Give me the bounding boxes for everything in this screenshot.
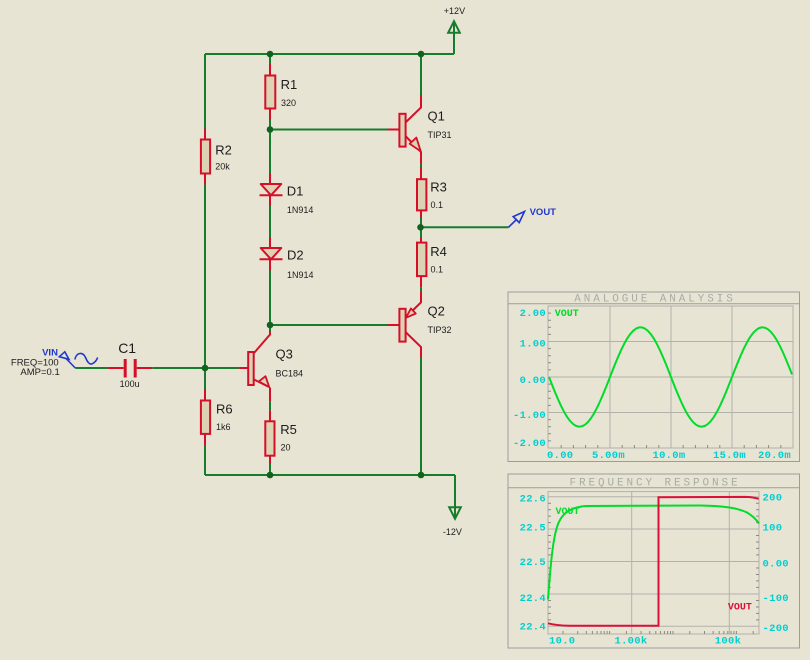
- svg-text:0.00: 0.00: [763, 559, 789, 571]
- svg-text:0.00: 0.00: [520, 375, 546, 387]
- svg-text:2.00: 2.00: [520, 308, 546, 320]
- power -12V: [443, 507, 462, 537]
- svg-text:R2: R2: [215, 143, 232, 158]
- capacitor C1: [118, 340, 139, 389]
- svg-text:R1: R1: [281, 77, 298, 92]
- svg-text:VOUT: VOUT: [555, 309, 579, 320]
- wire C1 to node: [137, 367, 153, 369]
- svg-text:VOUT: VOUT: [728, 603, 752, 614]
- svg-text:22.4: 22.4: [520, 622, 546, 634]
- wire Q3 collector: [254, 331, 270, 353]
- wire top rail: [205, 33, 454, 54]
- axis ticks panel 2: [548, 503, 759, 634]
- svg-text:Q3: Q3: [276, 347, 293, 362]
- svg-text:1N914: 1N914: [287, 205, 314, 215]
- wire R5 to bottom rail: [269, 456, 271, 464]
- resistor R4: [417, 243, 447, 277]
- wire D2 pin stubs: [269, 237, 271, 271]
- wire VOUT: [421, 226, 509, 228]
- node top Q1 junction: [418, 51, 425, 58]
- wire R1 pin stubs: [269, 64, 271, 120]
- transistor Q3: [248, 347, 303, 402]
- svg-text:22.5: 22.5: [520, 557, 546, 569]
- svg-text:TIP31: TIP31: [428, 130, 452, 140]
- svg-text:-12V: -12V: [443, 527, 462, 537]
- svg-text:TIP32: TIP32: [428, 325, 452, 335]
- axis labels panel 1: [513, 308, 791, 462]
- trace phase curve red: [548, 497, 759, 626]
- svg-text:D1: D1: [287, 183, 304, 198]
- svg-text:200: 200: [763, 493, 783, 505]
- svg-text:10.0m: 10.0m: [652, 450, 685, 462]
- svg-text:+12V: +12V: [444, 6, 465, 16]
- svg-text:C1: C1: [118, 340, 136, 356]
- wire Q2 collector to bottom rail: [420, 358, 422, 476]
- svg-text:Q1: Q1: [428, 108, 445, 123]
- wire R2 pin stubs: [204, 129, 206, 185]
- svg-text:22.4: 22.4: [520, 593, 546, 605]
- svg-text:-2.00: -2.00: [513, 438, 546, 450]
- wire Q3 base stub: [239, 367, 249, 369]
- wire bottom rail: [205, 475, 455, 507]
- svg-text:-200: -200: [763, 623, 789, 635]
- graph panel FREQUENCY RESPONSE: [508, 474, 800, 648]
- diode D2: [260, 247, 314, 280]
- resistor R6: [201, 401, 233, 434]
- svg-text:R4: R4: [430, 244, 447, 259]
- wire R6 pin stubs: [204, 389, 206, 445]
- wire Q1 emitter to R3: [420, 164, 422, 168]
- svg-text:1.00: 1.00: [520, 339, 546, 351]
- svg-text:AMP=0.1: AMP=0.1: [20, 367, 59, 378]
- node bottom R5 junction: [267, 472, 274, 479]
- trace VOUT sine curve: [549, 327, 792, 426]
- wire Q3 emitter to R5: [269, 402, 271, 411]
- svg-text:20k: 20k: [215, 162, 230, 172]
- diode D1: [260, 183, 314, 215]
- svg-text:22.6: 22.6: [520, 494, 546, 506]
- svg-text:15.0m: 15.0m: [713, 450, 746, 462]
- node Q1 base junction: [267, 126, 274, 133]
- svg-text:20.0m: 20.0m: [758, 450, 791, 462]
- terminal VOUT arrow: [509, 207, 557, 227]
- wire R4 to Q2 emitter: [420, 276, 422, 288]
- svg-text:-1.00: -1.00: [513, 410, 546, 422]
- axis labels panel 2: [520, 493, 789, 648]
- node bottom Q2 junction: [418, 472, 425, 479]
- svg-text:Q2: Q2: [428, 303, 445, 318]
- svg-text:1N914: 1N914: [287, 270, 314, 280]
- node VOUT junction: [417, 224, 424, 231]
- svg-text:100k: 100k: [715, 636, 741, 648]
- svg-text:-100: -100: [763, 593, 789, 605]
- axis ticks panel 1: [548, 313, 781, 448]
- svg-text:10.0: 10.0: [549, 636, 575, 648]
- wire left vertical (R2/R6 branch): [204, 54, 206, 475]
- svg-text:FREQUENCY RESPONSE: FREQUENCY RESPONSE: [569, 478, 740, 490]
- svg-text:20: 20: [281, 442, 291, 452]
- svg-text:VOUT: VOUT: [530, 207, 557, 218]
- generator VIN: [11, 348, 98, 378]
- svg-text:R3: R3: [430, 180, 447, 195]
- svg-text:ANALOGUE ANALYSIS: ANALOGUE ANALYSIS: [574, 294, 736, 306]
- resistor R2: [201, 140, 232, 174]
- wire D1 pin stubs: [269, 173, 271, 206]
- svg-text:BC184: BC184: [276, 369, 304, 379]
- svg-text:R6: R6: [216, 401, 233, 416]
- graph panel ANALOGUE ANALYSIS: [508, 292, 800, 462]
- wire Q2 base: [270, 324, 388, 326]
- wire Q1 base: [270, 129, 388, 131]
- resistor R1: [265, 76, 297, 109]
- svg-text:0.1: 0.1: [431, 200, 444, 210]
- svg-text:100u: 100u: [120, 379, 140, 389]
- transistor Q1: [399, 108, 451, 163]
- wire VIN to C1: [75, 367, 107, 369]
- power +12V: [444, 6, 465, 33]
- svg-text:320: 320: [281, 98, 296, 108]
- wire R1 branch vertical: [269, 54, 271, 331]
- node Q3 collector junction: [267, 322, 274, 329]
- node top R1 junction: [267, 51, 274, 58]
- svg-text:D2: D2: [287, 247, 304, 262]
- svg-text:22.5: 22.5: [520, 523, 546, 535]
- svg-text:1.00k: 1.00k: [614, 636, 647, 648]
- svg-text:5.00m: 5.00m: [592, 450, 625, 462]
- trace gain curve green: [548, 506, 759, 600]
- svg-text:0.00: 0.00: [547, 450, 573, 462]
- wire R4 top: [420, 227, 422, 238]
- svg-text:R5: R5: [280, 422, 297, 437]
- resistor R5: [265, 421, 297, 455]
- svg-text:1k6: 1k6: [216, 422, 231, 432]
- transistor Q2: [399, 303, 451, 357]
- wire Q1 collector: [420, 54, 422, 95]
- svg-text:0.1: 0.1: [431, 265, 444, 275]
- wire R3 to VOUT node: [420, 210, 422, 218]
- svg-text:100: 100: [763, 523, 783, 535]
- node C1 junction: [202, 365, 209, 372]
- resistor R3: [417, 179, 447, 210]
